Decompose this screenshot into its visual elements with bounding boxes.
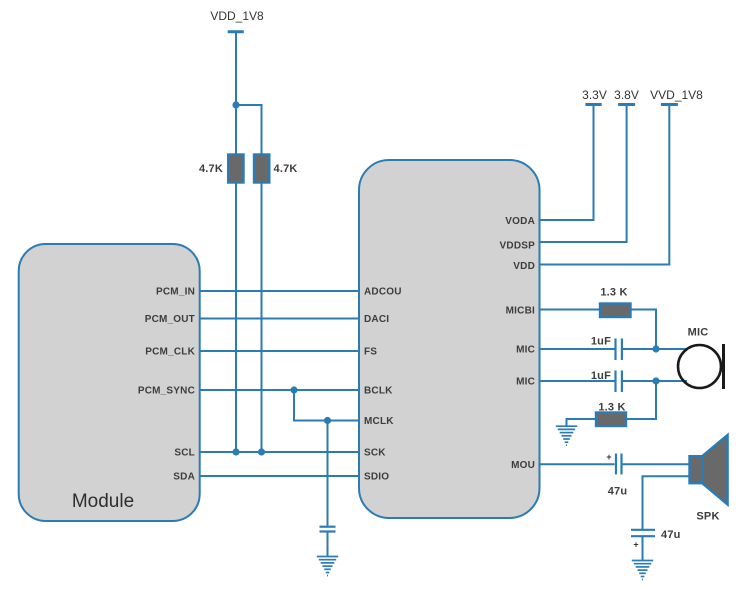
svg-text:SPK: SPK [696, 511, 719, 523]
resistor R1 4.7K [228, 155, 243, 183]
wire VDD to VVD_1V8 [540, 105, 670, 265]
svg-text:MIC: MIC [516, 377, 535, 388]
svg-text:1uF: 1uF [591, 336, 611, 348]
svg-text:3.8V: 3.8V [614, 88, 639, 102]
wire branch to R2 [236, 105, 262, 155]
wire MIC1 to C5 [540, 348, 615, 350]
junction dot on BCLK wire [290, 386, 297, 393]
svg-text:47u: 47u [608, 486, 628, 498]
svg-text:+: + [606, 452, 611, 462]
svg-text:VODA: VODA [505, 216, 535, 227]
svg-text:MCLK: MCLK [364, 416, 394, 427]
wire PCM_IN to ADCOU [200, 290, 360, 292]
junction dot VDD rail [232, 101, 239, 108]
svg-text:ADCOU: ADCOU [364, 287, 402, 298]
svg-text:DACI: DACI [364, 314, 389, 325]
wire R1 down to SCL [235, 183, 237, 453]
svg-text:SCL: SCL [174, 448, 195, 459]
svg-text:MIC: MIC [688, 327, 709, 339]
wire MCLK branch down to C1 [327, 421, 329, 526]
junction dot MIC plus node [652, 345, 659, 352]
svg-text:VDD_1V8: VDD_1V8 [210, 9, 264, 23]
wire R2 down to SCL [261, 183, 263, 453]
wire MICBI to R3 [540, 309, 601, 311]
wire C3 to SPK [623, 463, 690, 465]
svg-text:PCM_SYNC: PCM_SYNC [138, 386, 195, 397]
svg-text:Module: Module [72, 491, 134, 512]
wire PCM_OUT to DACI [200, 318, 360, 320]
resistor R3 1.3K [600, 304, 631, 318]
wire C6 to MIC [623, 380, 687, 382]
wire MOU to C3 [540, 463, 615, 465]
speaker SPK symbol [690, 435, 728, 505]
codec chip U2 body [359, 160, 540, 518]
wire VODA to 3.3V [540, 105, 594, 221]
svg-text:MICBI: MICBI [506, 306, 535, 317]
junction dot R2-SCL [258, 448, 265, 455]
junction dot R1-SCL [232, 448, 239, 455]
ground GND1 below C1 [317, 557, 338, 576]
svg-text:VDD: VDD [513, 261, 535, 272]
capacitor C4 47u polarized [631, 530, 655, 536]
svg-text:MOU: MOU [511, 460, 535, 471]
power 3.8V symbol [614, 88, 639, 105]
svg-text:4.7K: 4.7K [199, 163, 223, 175]
junction dot MIC minus node [652, 377, 659, 384]
power VDD_1V8 symbol [210, 9, 264, 32]
svg-text:47u: 47u [661, 529, 681, 541]
power 3.3V symbol [582, 88, 607, 105]
wire PCM_SYNC to BCLK [200, 389, 360, 391]
wire VDD_1V8 rail down to R1 [235, 32, 237, 155]
ground GND2 [556, 426, 577, 445]
svg-text:PCM_CLK: PCM_CLK [145, 347, 195, 358]
svg-text:VDDSP: VDDSP [500, 241, 536, 252]
microphone MIC1 symbol [678, 344, 724, 389]
ground GND3 [632, 561, 653, 580]
capacitor C5 1uF [616, 339, 622, 361]
wire C1 to ground [327, 532, 329, 556]
svg-text:1uF: 1uF [591, 370, 611, 382]
wire MIC node down to R4 [626, 381, 656, 419]
svg-text:FS: FS [364, 347, 377, 358]
wire SDA to SDIO [200, 475, 360, 477]
capacitor C3 47u polarized [616, 454, 622, 475]
capacitor C1 [320, 527, 336, 532]
svg-text:4.7K: 4.7K [274, 163, 298, 175]
svg-text:BCLK: BCLK [364, 386, 393, 397]
wire R3 to MIC node [631, 310, 657, 350]
junction dot on MCLK wire [324, 417, 331, 424]
power VVD_1V8 symbol [650, 88, 703, 105]
svg-text:+: + [633, 540, 638, 550]
wire C4 to ground [642, 537, 644, 561]
svg-text:1.3 K: 1.3 K [600, 287, 627, 299]
svg-text:SDIO: SDIO [364, 472, 389, 483]
wire branch BCLK to MCLK vertical [294, 390, 359, 421]
svg-text:PCM_OUT: PCM_OUT [145, 314, 195, 325]
resistor R4 1.3K [596, 413, 626, 427]
svg-text:SCK: SCK [364, 448, 386, 459]
svg-text:SDA: SDA [173, 472, 195, 483]
svg-text:3.3V: 3.3V [582, 88, 607, 102]
resistor R2 4.7K [254, 155, 269, 183]
module U1 body [19, 244, 200, 521]
svg-text:MIC: MIC [516, 345, 535, 356]
wire MIC2 to C6 [540, 380, 615, 382]
wire C5 to MIC [623, 348, 687, 350]
svg-text:VVD_1V8: VVD_1V8 [650, 88, 703, 102]
wire R4 to ground [567, 419, 597, 426]
wire SCL to SCK [200, 451, 360, 453]
wire SPK return to C4 [643, 476, 690, 529]
svg-text:1.3 K: 1.3 K [598, 402, 625, 414]
wire VDDSP to 3.8V [540, 105, 627, 243]
svg-text:PCM_IN: PCM_IN [156, 287, 195, 298]
capacitor C6 1uF [616, 371, 622, 393]
wire PCM_CLK to FS [200, 350, 360, 352]
